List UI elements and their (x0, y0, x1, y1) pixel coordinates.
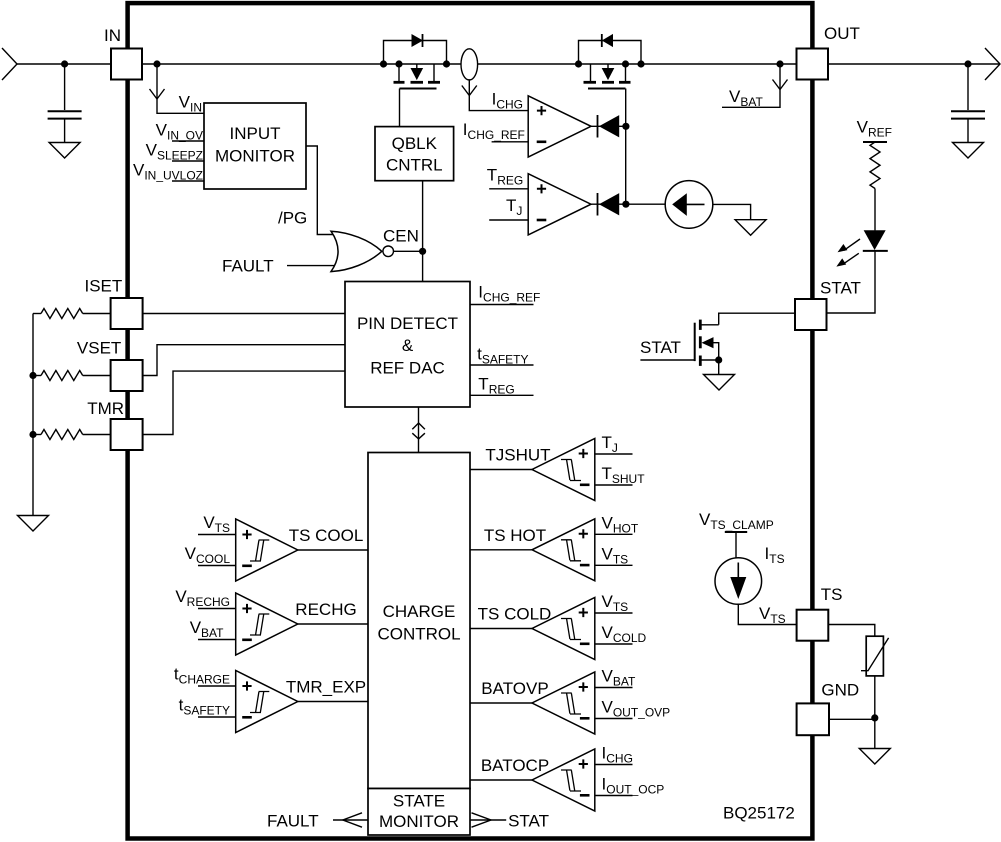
wire OUT to output (828, 63, 999, 65)
node CEN junction (419, 248, 426, 255)
svg-text:BATOVP: BATOVP (481, 679, 548, 698)
wire /PG from INPUT MONITOR to NOR gate (306, 146, 334, 235)
wire LED to STAT pin (827, 251, 875, 313)
comparator BATOVP (532, 672, 595, 734)
ground (output cap) (953, 143, 984, 159)
node VIN tap (153, 60, 160, 67)
svg-text:/PG: /PG (278, 209, 307, 228)
node R3 rail junction (29, 431, 36, 438)
svg-text:TS HOT: TS HOT (484, 526, 546, 545)
capacitor C1 (input) (48, 60, 82, 142)
wire RECHG output (298, 623, 368, 625)
current sense probe (ellipse) (461, 49, 478, 80)
thermistor RT1 (861, 636, 889, 676)
svg-text:PIN DETECT: PIN DETECT (357, 314, 458, 333)
op-amp U3 (TREG comparator) (528, 174, 591, 235)
ground (I1) (735, 220, 766, 236)
svg-text:TMR_EXP: TMR_EXP (286, 678, 366, 697)
diode D1 (Q1 body diode) (412, 34, 423, 47)
input arrow chevron (2, 48, 17, 80)
svg-text:TS COLD: TS COLD (478, 605, 552, 624)
wire FAULT output (333, 813, 368, 827)
wire ICHG_REF input (492, 141, 529, 143)
wire BATOVP - input (595, 718, 633, 720)
svg-text:REF DAC: REF DAC (370, 359, 445, 378)
wire resistor ground rail (32, 314, 34, 516)
wire VIN to INPUT MONITOR (156, 64, 158, 114)
wire TS HOT - input (595, 564, 633, 566)
svg-text:STATE: STATE (393, 792, 445, 811)
pin GND (797, 703, 829, 735)
pin OUT (797, 49, 829, 80)
comparator TS HOT (532, 519, 595, 581)
block QBLK CNTRL (375, 127, 454, 181)
svg-text:CNTRL: CNTRL (386, 156, 443, 175)
wire TJ input (489, 219, 528, 221)
svg-text:MONITOR: MONITOR (215, 147, 295, 166)
wire ICHG sense to comparator (469, 79, 528, 110)
wire FAULT to NOR gate (287, 265, 334, 267)
svg-text:CEN: CEN (383, 227, 419, 246)
svg-text:INPUT: INPUT (230, 124, 281, 143)
svg-text:TS: TS (821, 585, 843, 604)
comparator TS COLD (532, 598, 595, 660)
wire VSLEEPZ input (172, 160, 204, 162)
node thermal loop (622, 201, 629, 208)
wire TS to thermistor (828, 625, 875, 637)
wire rail to I2 (735, 532, 737, 558)
diode U2 output (598, 115, 619, 138)
wire TS COLD output (470, 628, 532, 630)
wire Q1 gate to QBLK CNTRL (399, 89, 401, 127)
svg-text:QBLK: QBLK (392, 134, 438, 153)
ground (resistor rail) (18, 516, 49, 532)
wire ICHG_REF output (470, 304, 534, 306)
wire TMR_EXP output (298, 701, 368, 703)
diode U3 output (598, 193, 619, 216)
svg-text:TJSHUT: TJSHUT (485, 446, 550, 465)
wire STAT gate (640, 359, 694, 361)
capacitor C2 (output) (951, 64, 985, 142)
wire GND pin to junction (829, 718, 875, 720)
wire junction to ground (874, 718, 876, 748)
ground (input cap) (49, 143, 80, 159)
svg-text:BQ25172: BQ25172 (723, 804, 795, 823)
svg-text:&: & (402, 336, 414, 355)
IC boundary box BQ25172 (128, 3, 813, 838)
wire BATOVP output (470, 702, 532, 704)
ground (GND pin) (859, 749, 890, 765)
svg-text:ISET: ISET (85, 277, 123, 296)
ground (Q3 source) (704, 375, 735, 391)
node VREF rail (863, 141, 887, 143)
block STATE MONITOR (368, 789, 470, 836)
wire TS COOL - input (198, 565, 236, 567)
NOR gate U1 (331, 231, 394, 271)
wire IN input rail (17, 63, 111, 65)
node VBAT tap (776, 60, 783, 67)
svg-text:BATOCP: BATOCP (481, 756, 549, 775)
wire RECHG - input (198, 639, 236, 641)
wire TMR_EXP + input (198, 685, 236, 687)
wire TJSHUT - input (595, 484, 633, 486)
block CHARGE CONTROL (368, 453, 470, 789)
pin IN (111, 49, 142, 80)
wire VBAT sense (722, 64, 780, 107)
wire TMR_EXP - input (198, 716, 236, 718)
transistor Q2 (charging PFET) (575, 41, 645, 89)
wire VSET to PIN DETECT (143, 345, 345, 376)
wire STAT output (470, 813, 506, 827)
op-amp U2 (ICHG comparator) (528, 96, 591, 157)
resistor R4 (LED series) (870, 142, 880, 189)
wire BATOCP output (470, 779, 532, 781)
comparator TMR_EXP (236, 671, 298, 733)
comparator BATOCP (532, 749, 595, 811)
pin VSET (111, 360, 143, 391)
wire QBLK CNTRL to PIN DETECT (422, 181, 424, 283)
svg-text:RECHG: RECHG (295, 600, 356, 619)
node Q2 gate drive (622, 123, 629, 130)
wire tSAFETY output (470, 364, 534, 366)
block PIN DETECT &amp; REF DAC (345, 282, 470, 408)
svg-text:FAULT: FAULT (267, 812, 319, 831)
svg-text:GND: GND (821, 681, 859, 700)
svg-text:CHARGE: CHARGE (383, 602, 456, 621)
wire TREG input (489, 188, 528, 190)
output arrow chevron (985, 48, 1000, 80)
node GND junction (871, 714, 878, 721)
wire TJSHUT output (470, 469, 532, 471)
wire R4 to LED (874, 189, 876, 231)
wire RECHG + input (198, 608, 236, 610)
svg-text:TMR: TMR (87, 399, 124, 418)
wire thermistor to GND net (874, 676, 876, 718)
wire TJSHUT + input (595, 453, 633, 455)
wire BATOVP + input (595, 687, 633, 689)
wire TS HOT output (470, 549, 532, 551)
LED D3 (838, 231, 888, 266)
wire VIN_UVLOZ input (172, 180, 204, 182)
wire TMR to PIN DETECT (143, 371, 345, 434)
svg-text:MONITOR: MONITOR (379, 812, 459, 831)
pin ISET (111, 298, 143, 329)
svg-text:FAULT: FAULT (222, 257, 274, 276)
wire TS COLD - input (595, 643, 633, 645)
node output cap tap (964, 60, 971, 67)
wire CEN (394, 250, 423, 252)
svg-text:VSET: VSET (77, 339, 121, 358)
wire PIN DETECT to CHARGE CONTROL (bidirectional) (412, 407, 425, 453)
wire main top rail IN to OUT (142, 63, 796, 65)
svg-text:STAT: STAT (820, 279, 861, 298)
wire U2 output (591, 125, 626, 127)
wire BATOCP + input (595, 764, 633, 766)
wire VIN_OV input (172, 140, 204, 142)
resistor R3 (TMR) (33, 430, 111, 440)
resistor R2 (VSET) (33, 371, 111, 381)
resistor R1 (ISET) (33, 309, 111, 319)
wire TS COOL output (298, 549, 368, 551)
comparator RECHG (236, 593, 298, 655)
wire STAT pin to Q3 drain (719, 313, 795, 325)
transistor Q1 (blocking PFET) (380, 41, 450, 89)
wire TS COOL + input (198, 534, 236, 536)
node R2 rail junction (29, 372, 36, 379)
node VTS_CLAMP rail (725, 531, 747, 533)
current source I1 (665, 181, 713, 229)
pin STAT (795, 299, 827, 330)
svg-text:OUT: OUT (824, 24, 860, 43)
current source I2 (ITS) (715, 558, 762, 605)
transistor Q3 (STAT open-drain NFET) (695, 320, 723, 374)
wire TS COLD + input (595, 612, 633, 614)
wire U3 output (591, 203, 665, 205)
wire Q2 gate to comparator node (625, 89, 627, 205)
wire BATOCP - input (595, 795, 633, 797)
diode D2 (Q2 body diode) (602, 34, 613, 47)
wire I2 to TS pin (738, 604, 796, 624)
svg-text:STAT: STAT (640, 338, 681, 357)
block INPUT MONITOR (204, 103, 306, 189)
svg-text:TS COOL: TS COOL (289, 526, 364, 545)
pin TMR (111, 419, 143, 450)
pin TS (797, 610, 829, 641)
wire TREG output (470, 394, 534, 396)
comparator TS COOL (236, 519, 298, 581)
wire TS HOT + input (595, 533, 633, 535)
wire I1 to ground (713, 204, 751, 219)
wire ISET to PIN DETECT (143, 313, 345, 315)
svg-text:CONTROL: CONTROL (377, 625, 460, 644)
comparator TJSHUT (532, 439, 595, 501)
svg-text:IN: IN (104, 26, 121, 45)
svg-text:STAT: STAT (508, 812, 549, 831)
